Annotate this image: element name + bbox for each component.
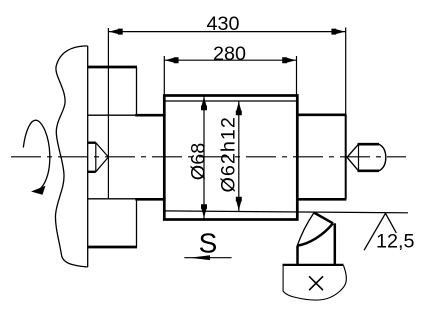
rotation direction arrow (left, curved) bbox=[23, 120, 50, 188]
workpiece left end face + 430 left extension line bbox=[107, 28, 109, 199]
dimension 430: left arrowhead bbox=[109, 29, 123, 35]
chuck face (right edge) bbox=[87, 46, 89, 267]
chuck body (wavy break outline) bbox=[55, 46, 87, 267]
cutting tool bit (insert with curved cutting edge) bbox=[297, 213, 314, 246]
dimension 280: right arrowhead bbox=[282, 57, 296, 63]
middle section Ø68 (thick rectangle) bbox=[164, 96, 297, 220]
430 right extension line (thin) bbox=[345, 28, 347, 115]
dimension Ø68: vertical line bbox=[203, 96, 205, 221]
dimension 280: left arrowhead bbox=[165, 57, 179, 63]
tool holder outline bbox=[283, 265, 346, 300]
headstock center (left cone) bbox=[88, 141, 96, 143]
dimension 430: line bbox=[108, 31, 345, 33]
centerline (dash-dot axis) bbox=[11, 156, 406, 158]
svg-text:12,5: 12,5 bbox=[376, 230, 415, 252]
roughness symbol 12,5 bbox=[364, 213, 396, 250]
chuck top jaw bbox=[88, 66, 137, 69]
dimension 280: right extension line bbox=[296, 56, 298, 96]
shaft left section top edge (thick) bbox=[135, 114, 165, 117]
dimension Ø62h12: top arrowhead bbox=[236, 102, 242, 116]
shaft left section bottom edge (thick) bbox=[135, 198, 165, 201]
svg-text:S: S bbox=[199, 228, 218, 259]
feed arrow under S bbox=[184, 257, 231, 259]
tool shank left edge bbox=[296, 246, 299, 265]
dimension Ø62h12: vertical line bbox=[238, 101, 240, 211]
svg-text:Ø62h12: Ø62h12 bbox=[217, 116, 239, 192]
right shaft section bottom edge (thick) bbox=[297, 198, 346, 201]
dimension Ø68: bottom arrowhead bbox=[201, 204, 207, 218]
dimension Ø68: top arrowhead bbox=[201, 97, 207, 111]
tool shank right edge bbox=[334, 223, 337, 264]
tool holder top edge (thick) bbox=[283, 264, 344, 266]
dimension 430: right arrowhead bbox=[331, 29, 345, 35]
chuck bottom jaw bbox=[88, 198, 137, 200]
right end face (thick) bbox=[345, 115, 347, 200]
right shaft section top edge (thick) bbox=[297, 113, 346, 116]
tailstock center (right cone + body) bbox=[347, 144, 359, 157]
svg-text:Ø68: Ø68 bbox=[187, 143, 209, 180]
Ø62 machined line top (thin) bbox=[164, 100, 297, 102]
Ø62 machined line bottom, extended to roughness mark (thin) bbox=[164, 211, 408, 213]
dimension 280: left extension line bbox=[163, 56, 165, 96]
dimension Ø62h12: bottom arrowhead bbox=[236, 197, 242, 211]
svg-text:280: 280 bbox=[213, 43, 246, 65]
dimension 280: line bbox=[164, 59, 296, 61]
svg-text:430: 430 bbox=[206, 13, 239, 35]
tool holder X mark bbox=[309, 276, 323, 290]
